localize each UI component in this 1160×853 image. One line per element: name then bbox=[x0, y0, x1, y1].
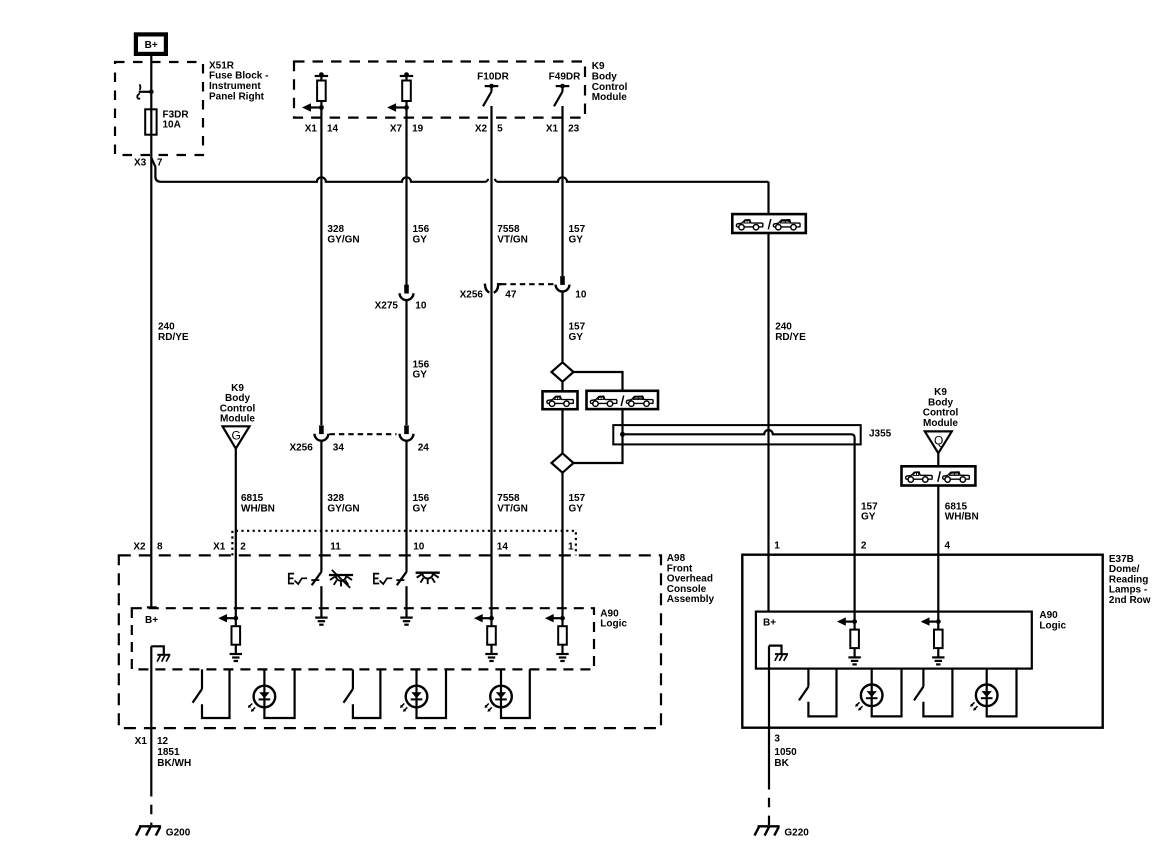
option box: truck/truck on right battery feed bbox=[732, 214, 806, 233]
LED lamp 2 bbox=[417, 669, 447, 718]
internal ground (pin 10 circuit) bbox=[400, 618, 412, 625]
door switch icon (pin 11 circuit) bbox=[289, 574, 307, 584]
svg-text:GY: GY bbox=[413, 234, 428, 245]
dome lamp icon bbox=[416, 573, 440, 584]
LED driver (pin X1-2 / 6815 WH/BN) bbox=[218, 614, 242, 661]
lamp switch sub-circuit 1 bbox=[202, 669, 230, 718]
svg-text:F49DR: F49DR bbox=[549, 71, 581, 82]
svg-text:7: 7 bbox=[157, 158, 163, 169]
svg-text:5: 5 bbox=[497, 123, 503, 134]
svg-text:2: 2 bbox=[861, 540, 867, 551]
lamp switch sub-circuit 2 bbox=[353, 669, 381, 718]
svg-text:X1: X1 bbox=[135, 736, 148, 747]
wire: A98 ground return to G200 (1851 BK/WH) bbox=[150, 646, 152, 787]
internal ground symbol (A90 left) bbox=[151, 646, 170, 661]
svg-text:Logic: Logic bbox=[1039, 620, 1066, 631]
svg-text:F10DR: F10DR bbox=[477, 71, 509, 82]
K9 Body Control Module dashed outline (top) bbox=[294, 62, 585, 118]
in-line connector X256 pin 34 bbox=[315, 425, 329, 440]
svg-text:X7: X7 bbox=[390, 123, 403, 134]
svg-text:RD/YE: RD/YE bbox=[775, 332, 806, 343]
wire: BCM ground reference triangle to A98 pin X1-2 (6815 WH/BN) bbox=[235, 449, 237, 619]
svg-text:X2: X2 bbox=[475, 123, 488, 134]
junction dot at fuse input bbox=[149, 90, 154, 95]
svg-text:GY: GY bbox=[413, 504, 428, 515]
internal ground (pin 11 circuit) bbox=[315, 618, 327, 625]
lamp switch sub-circuit 3 bbox=[808, 669, 836, 717]
in-line connector X256 pin 47 (pass-through half) bbox=[485, 284, 490, 293]
internal ground symbol (A90 right) bbox=[769, 646, 788, 661]
svg-text:X275: X275 bbox=[375, 301, 399, 312]
svg-text:GY: GY bbox=[413, 370, 428, 381]
svg-text:X256: X256 bbox=[289, 442, 313, 453]
wire: BCM X7-19 output down to X275 connector (156 GY) bbox=[405, 108, 407, 286]
door switch icon (pin 10 circuit) bbox=[374, 574, 392, 584]
option box: truck/truck on branch bbox=[587, 391, 659, 409]
svg-text:X1: X1 bbox=[305, 123, 318, 134]
LED lamp 1 bbox=[264, 669, 294, 718]
wire: switch to internal ground at pin 11 bbox=[320, 586, 322, 617]
LED driver (pin 1 / 157 GY) bbox=[545, 614, 569, 661]
wire: F49DR output down to X256 pin 10 (157 GY) bbox=[561, 106, 563, 276]
lamp switch sub-circuit 4 bbox=[923, 669, 952, 717]
svg-text:Logic: Logic bbox=[600, 619, 627, 630]
svg-text:GY/GN: GY/GN bbox=[327, 504, 359, 515]
svg-text:Module: Module bbox=[592, 92, 627, 103]
svg-text:23: 23 bbox=[568, 123, 580, 134]
wire: jog at X3/7 and horizontal bus to the right with hops over BCM outputs bbox=[151, 158, 768, 182]
svg-text:2nd Row: 2nd Row bbox=[1109, 595, 1151, 606]
wire: battery feed from B+ box through fuse down to A98 (240 RD/YE) bbox=[150, 54, 152, 607]
LED driver (pin 2 / 157 GY) bbox=[837, 617, 861, 664]
ground G200 bbox=[136, 826, 161, 835]
svg-text:19: 19 bbox=[412, 123, 424, 134]
svg-text:10: 10 bbox=[575, 290, 587, 301]
BCM driver output (to X1-14) bbox=[302, 72, 328, 112]
in-line connector X256 pin 10 bbox=[556, 276, 570, 291]
LED lamp 3 bbox=[501, 669, 530, 718]
svg-text:A90: A90 bbox=[1039, 610, 1058, 621]
B+ terminal of A90 bbox=[147, 606, 157, 608]
wire: X256 pin 24 to A98 switch (156 GY) bbox=[405, 441, 407, 572]
BCM driver output (to X7-19) bbox=[387, 72, 413, 112]
svg-text:1851: 1851 bbox=[157, 747, 180, 758]
A98 Front Overhead Console Assembly dashed outline bbox=[119, 555, 661, 728]
wire: BCM ground reference to E37B pin 4 (6815 WH/BN) bbox=[937, 453, 939, 621]
svg-text:B+: B+ bbox=[145, 40, 158, 51]
svg-text:G: G bbox=[232, 429, 241, 443]
svg-text:1050: 1050 bbox=[774, 747, 797, 758]
LED driver (pin 14 / 7558 VT/GN) bbox=[474, 614, 498, 661]
svg-text:GY/GN: GY/GN bbox=[327, 234, 359, 245]
in-line connector X275 pin 10 bbox=[400, 285, 414, 300]
svg-text:X1: X1 bbox=[213, 541, 226, 552]
B+ battery terminal box bbox=[136, 34, 166, 54]
wire: J355 output to E37B pin 2 (157 GY) bbox=[853, 438, 855, 622]
fuse terminal clip symbol bbox=[139, 84, 142, 90]
svg-text:X2: X2 bbox=[133, 541, 146, 552]
svg-text:12: 12 bbox=[157, 736, 169, 747]
switch (pin 11) bbox=[311, 579, 319, 581]
svg-text:4: 4 bbox=[945, 540, 951, 551]
svg-text:X256: X256 bbox=[460, 290, 484, 301]
wire: right battery feed 240 RD/YE down to E37B pin 1 bbox=[767, 182, 769, 612]
svg-text:1: 1 bbox=[774, 540, 780, 551]
svg-text:10: 10 bbox=[415, 301, 427, 312]
svg-text:GY: GY bbox=[569, 234, 584, 245]
E37B Dome/Reading Lamps 2nd Row outline bbox=[742, 555, 1102, 728]
wire: BCM X1-14 output down to X256 connector (328 GY/GN) bbox=[320, 108, 322, 426]
svg-text:3: 3 bbox=[774, 734, 780, 745]
wire: X275 to X256 pin 24 (156 GY) bbox=[405, 301, 407, 425]
J355 splice pack busbar bbox=[613, 425, 860, 444]
LED lamp 5 bbox=[987, 669, 1017, 717]
svg-text:BK: BK bbox=[774, 758, 789, 769]
option box: single truck on 157 GY bbox=[543, 391, 578, 409]
svg-text:10: 10 bbox=[413, 541, 425, 552]
wire: F10DR output down through X256 pin 47 to A98 pin 14 (7558 VT/GN) bbox=[490, 106, 492, 618]
wire: branch from splice diamonds to J355 (157 GY) bbox=[573, 372, 623, 463]
in-line connector X256 pin 24 bbox=[400, 425, 414, 440]
ground G220 bbox=[755, 826, 780, 835]
connector bridge dashed X256 bbox=[330, 433, 397, 435]
svg-text:14: 14 bbox=[327, 123, 339, 134]
X51R fuse block dashed outline bbox=[115, 62, 203, 155]
fuse F3DR 10A bbox=[145, 109, 156, 134]
svg-text:WH/BN: WH/BN bbox=[241, 504, 275, 515]
wire: switch to internal ground at pin 10 bbox=[405, 586, 407, 617]
A90 Logic box (E37B) bbox=[756, 612, 1032, 669]
svg-text:11: 11 bbox=[330, 541, 341, 552]
dome lamp icon with slash bbox=[329, 575, 353, 586]
svg-text:14: 14 bbox=[497, 541, 509, 552]
svg-text:1: 1 bbox=[568, 541, 574, 552]
svg-text:G220: G220 bbox=[784, 827, 809, 838]
svg-text:X3: X3 bbox=[134, 158, 147, 169]
LED lamp 4 bbox=[872, 669, 902, 717]
svg-text:2: 2 bbox=[240, 541, 246, 552]
svg-text:Assembly: Assembly bbox=[667, 594, 715, 605]
svg-text:8: 8 bbox=[157, 541, 163, 552]
wire: X256 pin 34 to A98 switch (328 GY/GN) bbox=[320, 441, 322, 572]
svg-text:J355: J355 bbox=[869, 428, 892, 439]
A90 Logic dashed box (A98) bbox=[132, 608, 594, 669]
svg-text:B+: B+ bbox=[763, 617, 776, 628]
svg-text:VT/GN: VT/GN bbox=[497, 234, 528, 245]
svg-text:X1: X1 bbox=[546, 123, 559, 134]
svg-text:Module: Module bbox=[220, 414, 255, 425]
connector bridge dashed X256 bbox=[501, 283, 555, 285]
svg-text:GY: GY bbox=[861, 512, 876, 523]
splice diamond (upper) on 157 GY bbox=[552, 362, 574, 381]
svg-text:B+: B+ bbox=[145, 615, 158, 626]
wire: X256 pin 10 through splices to A98 pin 1 (157 GY) bbox=[561, 292, 563, 618]
svg-text:WH/BN: WH/BN bbox=[945, 512, 979, 523]
option box: truck/truck on 6815 WH/BN bbox=[902, 466, 976, 485]
svg-text:Panel Right: Panel Right bbox=[209, 91, 265, 102]
svg-text:Module: Module bbox=[923, 418, 958, 429]
X1 dotted connector box on A98 bbox=[232, 531, 576, 556]
svg-text:24: 24 bbox=[418, 442, 430, 453]
LED driver (pin 4 / 6815 WH/BN) bbox=[921, 617, 945, 664]
switch (pin 10) bbox=[396, 579, 404, 581]
svg-text:BK/WH: BK/WH bbox=[157, 758, 191, 769]
svg-text:GY: GY bbox=[569, 332, 584, 343]
svg-text:GY: GY bbox=[569, 504, 584, 515]
wire: E37B ground return to G220 (1050 BK) bbox=[768, 646, 770, 780]
splice diamond (lower) on 157 GY bbox=[552, 453, 574, 472]
svg-text:10A: 10A bbox=[163, 120, 181, 131]
svg-text:Q: Q bbox=[934, 433, 943, 447]
svg-text:VT/GN: VT/GN bbox=[497, 504, 528, 515]
svg-text:RD/YE: RD/YE bbox=[158, 332, 189, 343]
svg-text:34: 34 bbox=[333, 442, 345, 453]
svg-text:G200: G200 bbox=[166, 827, 191, 838]
svg-text:47: 47 bbox=[505, 290, 517, 301]
